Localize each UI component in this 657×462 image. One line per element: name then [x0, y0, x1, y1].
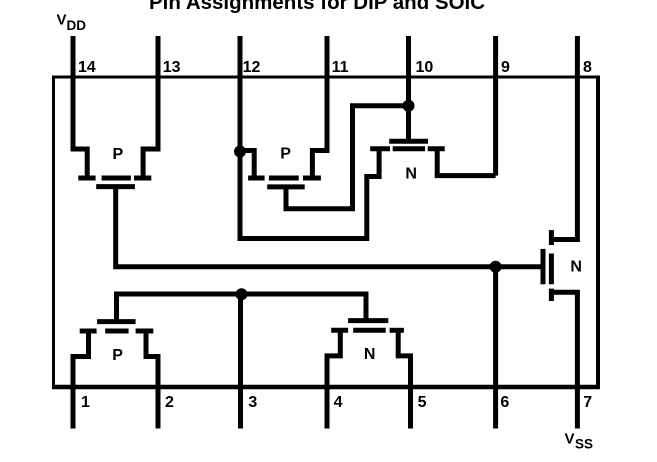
pin 6 lead	[493, 267, 498, 429]
pin 5 lead from N3 drain	[398, 330, 410, 428]
pin 4 lead from N3 source	[327, 330, 340, 428]
wire pin12 to N1 source	[238, 149, 380, 239]
transistor N3 (NMOS pins 4/5)	[331, 321, 404, 331]
svg-text:P: P	[113, 146, 124, 163]
svg-text:P: P	[112, 347, 123, 364]
VDD label	[57, 12, 87, 34]
svg-text:6: 6	[500, 394, 509, 411]
svg-text:4: 4	[334, 394, 343, 411]
svg-text:10: 10	[416, 59, 434, 76]
IC outline box	[52, 77, 600, 387]
transistor P2 (PMOS pins 12/11)	[248, 178, 321, 187]
svg-text:N: N	[405, 166, 417, 183]
svg-text:3: 3	[248, 394, 257, 411]
pin 10 lead into N1 gate	[406, 36, 411, 141]
pin 3 lead	[238, 294, 243, 429]
pin 9 lead	[493, 36, 498, 176]
transistor N1 (NMOS pins 10/9)	[370, 141, 445, 149]
wire N1 drain to pin 9	[437, 149, 495, 176]
svg-text:11: 11	[332, 59, 349, 76]
transistor P1 (PMOS pins 14/13)	[78, 178, 151, 187]
junction dot pin3/gate wire	[236, 288, 248, 300]
wire P2 gate to pin 10 node	[286, 106, 409, 209]
svg-text:SS: SS	[575, 437, 593, 452]
svg-text:9: 9	[501, 59, 510, 76]
svg-text:N: N	[570, 259, 582, 276]
wire P1 gate to N2 gate (node at pin 6)	[116, 187, 541, 267]
svg-text:12: 12	[243, 59, 261, 76]
pin 2 lead from P3 drain	[146, 331, 158, 429]
svg-text:2: 2	[165, 394, 174, 411]
svg-text:7: 7	[583, 394, 592, 411]
pin 8 lead (into N2 drain)	[551, 36, 577, 240]
pin 14 lead (VDD) into P1 source	[73, 36, 87, 178]
wire N2 source to pin 7	[551, 292, 577, 428]
pin 12 lead	[238, 36, 243, 239]
pin 13 lead into P1 drain	[143, 36, 158, 178]
svg-text:1: 1	[81, 394, 90, 411]
junction dot pin10/P2 gate	[403, 100, 415, 112]
pin 11 lead into P2 drain	[312, 36, 327, 178]
svg-text:Pin Assignments for DIP and SO: Pin Assignments for DIP and SOIC	[149, 0, 485, 14]
svg-text:DD: DD	[67, 18, 87, 33]
wire P3 gate to N3 gate	[117, 294, 367, 322]
VSS label	[565, 431, 594, 452]
wire pin12 dot to P2 source	[240, 151, 254, 179]
svg-text:P: P	[280, 146, 291, 163]
svg-text:13: 13	[163, 59, 181, 76]
svg-text:N: N	[364, 346, 376, 363]
svg-text:14: 14	[78, 59, 96, 76]
transistor P3 (PMOS pins 1/2)	[80, 322, 154, 331]
svg-text:5: 5	[418, 394, 427, 411]
transistor N2 (NMOS pins 8/7, rotated)	[543, 230, 551, 301]
svg-text:V: V	[57, 12, 67, 29]
junction dot pin6/gate wire	[490, 261, 502, 273]
pin 1 lead from P3 source	[73, 331, 89, 429]
svg-text:V: V	[565, 431, 575, 448]
svg-text:8: 8	[583, 59, 592, 76]
junction dot pin12/P2	[234, 146, 246, 158]
